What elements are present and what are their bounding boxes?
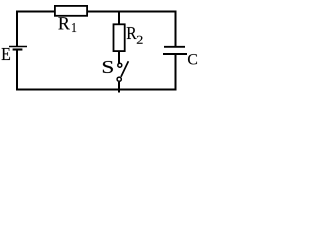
capacitor C plate top [164, 46, 185, 48]
label E [2, 48, 10, 60]
wire right upper [175, 11, 177, 47]
wire left [16, 11, 18, 47]
switch S blade [121, 61, 128, 77]
resistor R2 [114, 24, 125, 51]
capacitor C plate bottom [163, 53, 187, 55]
label S [103, 61, 113, 73]
wire middle branch upper [118, 12, 120, 25]
resistor R1 [55, 6, 87, 16]
wire right lower [175, 54, 177, 91]
battery E plate short [13, 48, 23, 50]
wire bottom [16, 89, 177, 91]
label R2 [127, 27, 137, 39]
wire left lower [16, 50, 18, 90]
wire middle branch lower [118, 82, 120, 93]
label C [188, 54, 197, 64]
battery E plate long [9, 46, 27, 48]
switch S contact bottom [117, 77, 121, 81]
label R1 [58, 17, 69, 29]
wire middle branch to switch [118, 52, 120, 64]
switch S contact top [118, 63, 122, 67]
wire top [16, 11, 177, 13]
